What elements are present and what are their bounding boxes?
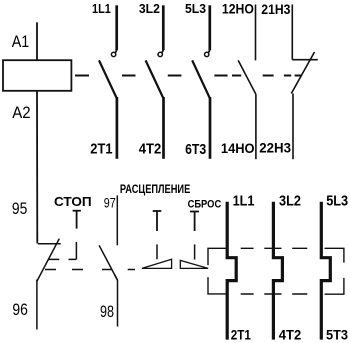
trip arrow triangle bbox=[142, 259, 172, 268]
aux NC contact (21Н3-22Н3) bbox=[291, 5, 318, 160]
svg-text:6T3: 6T3 bbox=[185, 142, 206, 158]
svg-text:3L2: 3L2 bbox=[279, 194, 301, 210]
svg-text:14НО: 14НО bbox=[221, 141, 255, 156]
svg-text:95: 95 bbox=[12, 200, 28, 218]
trip T symbol (РАСЦЕПЛЕНИЕ) bbox=[153, 211, 162, 231]
heater linkage frame left bracket bbox=[208, 248, 227, 294]
thermal NO contact 97-98 bbox=[99, 195, 117, 326]
svg-text:2T1: 2T1 bbox=[231, 327, 251, 343]
mechanical linkage dashed line (top) bbox=[75, 75, 301, 77]
coil KM (rectangle) bbox=[3, 60, 71, 91]
aux NO contact (12NO-14NO) bbox=[238, 5, 256, 160]
reset arrow triangle bbox=[180, 260, 208, 268]
stop button dashed stem and foot bbox=[69, 242, 77, 259]
heater linkage dashes bottom bbox=[241, 293, 308, 295]
wire A2 down to thermal contact 95 bbox=[36, 91, 38, 244]
main contact pole 2 (3L2-4T2) bbox=[146, 5, 164, 159]
svg-text:12НО: 12НО bbox=[222, 2, 254, 17]
svg-text:21Н3: 21Н3 bbox=[261, 1, 290, 17]
main contact pole 3 (5L3-6T3) bbox=[192, 5, 210, 159]
svg-text:22Н3: 22Н3 bbox=[259, 140, 291, 155]
heater linkage frame right bracket bbox=[325, 248, 344, 294]
svg-text:96: 96 bbox=[12, 301, 28, 319]
svg-text:5T3: 5T3 bbox=[326, 327, 348, 343]
dashed link blade to stop stem bbox=[48, 258, 59, 260]
svg-text:3L2: 3L2 bbox=[139, 1, 160, 16]
stop button T symbol bbox=[73, 211, 81, 229]
svg-text:СТОП: СТОП bbox=[54, 194, 92, 209]
svg-text:5L3: 5L3 bbox=[185, 1, 206, 16]
svg-text:1L1: 1L1 bbox=[92, 1, 111, 16]
trip stem dash bbox=[156, 244, 158, 259]
svg-text:2T1: 2T1 bbox=[90, 141, 112, 157]
svg-text:A1: A1 bbox=[12, 33, 30, 51]
heater element 1L1-2T1 bbox=[227, 202, 236, 340]
heater element 3L2-4T2 bbox=[273, 202, 282, 340]
svg-text:4T2: 4T2 bbox=[279, 327, 302, 343]
svg-text:РАСЦЕПЛЕНИЕ: РАСЦЕПЛЕНИЕ bbox=[120, 182, 190, 196]
reset stem dash bbox=[194, 244, 196, 259]
svg-text:СБРОС: СБРОС bbox=[188, 198, 222, 210]
lower mechanical dashed line bbox=[45, 269, 135, 271]
heater linkage dashes top bbox=[241, 247, 308, 249]
thermal NC contact 95-96 bbox=[37, 239, 61, 330]
main contact pole 1 (1L1-2T1) bbox=[99, 5, 117, 159]
reset T symbol (СБРОС) bbox=[190, 212, 199, 232]
svg-text:97: 97 bbox=[104, 195, 116, 210]
svg-text:5L3: 5L3 bbox=[326, 194, 348, 210]
svg-text:4T2: 4T2 bbox=[139, 141, 162, 157]
wire A1 top bbox=[36, 22, 38, 60]
heater element 5L3-5T3 bbox=[321, 202, 330, 340]
svg-text:1L1: 1L1 bbox=[233, 194, 255, 210]
svg-text:98: 98 bbox=[100, 303, 114, 321]
svg-text:A2: A2 bbox=[12, 104, 30, 122]
